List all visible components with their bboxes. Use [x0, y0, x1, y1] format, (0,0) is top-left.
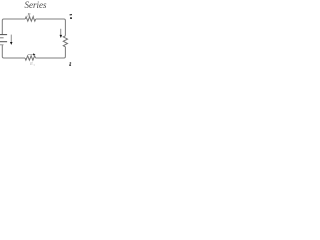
current arrow bottom (right) — [28, 53, 36, 55]
resistor R2 — [63, 36, 67, 47]
clipped label at right edge (top) — [70, 14, 73, 16]
svg-text:Series: Series — [25, 0, 47, 10]
battery BT1 plate short — [0, 37, 4, 39]
wire top-left corner to R1 — [2, 19, 25, 34]
battery BT1 plate long top — [0, 34, 7, 36]
battery BT1 plate long bottom — [0, 41, 7, 43]
resistor R1 — [25, 17, 36, 21]
current arrow left (down) — [10, 35, 13, 45]
wire R1 to top-right corner down to R2 — [36, 19, 66, 36]
svg-text:R: R — [26, 12, 31, 18]
wire R2 to bottom-right corner to R3 — [36, 47, 66, 58]
svg-text:1: 1 — [33, 14, 35, 18]
svg-text:3: 3 — [33, 63, 35, 67]
wire R3 to bottom-left corner up to battery — [2, 45, 25, 58]
resistor R3 — [25, 56, 36, 60]
clipped label at right edge (bottom) — [70, 62, 72, 64]
current arrow right (down) — [60, 29, 63, 38]
battery BT1 plate short bottom — [0, 44, 4, 46]
